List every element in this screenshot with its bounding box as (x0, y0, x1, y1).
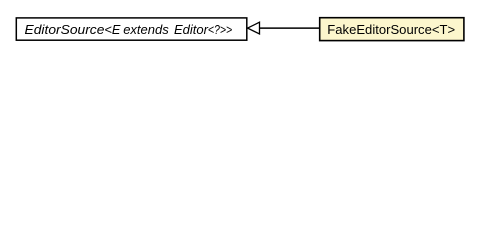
class box FakeEditorSource (highlighted, pale yellow) (320, 18, 464, 41)
background (0, 0, 480, 59)
class box EditorSource (interface, white) (16, 18, 247, 40)
svg-text:EditorSource<EextendsEditor<?>: EditorSource<EextendsEditor<?>> (25, 22, 233, 37)
generalization arrow (hollow triangle + line) (248, 22, 260, 34)
wire connector line (260, 27, 320, 29)
svg-text:FakeEditorSource<T>: FakeEditorSource<T> (327, 22, 455, 37)
